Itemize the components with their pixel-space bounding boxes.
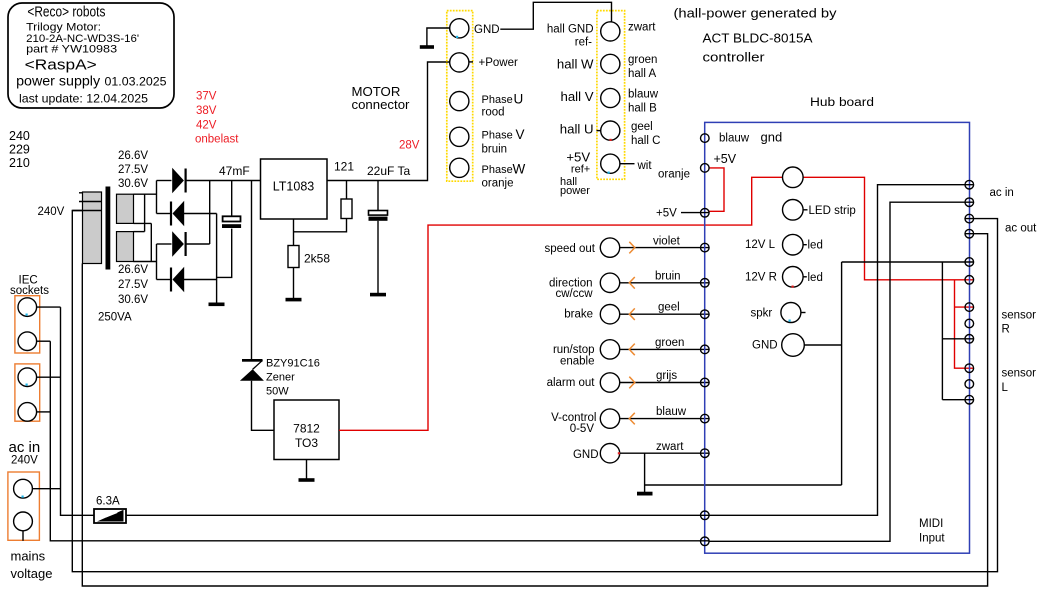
svg-text:42V: 42V (196, 120, 217, 132)
wire ac inlet live (32, 488, 60, 490)
svg-text:TO3: TO3 (295, 436, 318, 450)
svg-text:ref-: ref- (575, 36, 592, 48)
svg-text:7812: 7812 (293, 422, 320, 436)
svg-text:LT1083: LT1083 (273, 180, 315, 194)
svg-text:hall A: hall A (628, 68, 656, 80)
svg-text:cw/ccw: cw/ccw (555, 288, 593, 300)
rectifier diode D3 (157, 243, 172, 245)
hall connector pin4 (601, 121, 620, 140)
wire red +5V link (709, 168, 724, 211)
svg-text:gnd: gnd (761, 130, 783, 145)
wire ac in live riser (709, 185, 973, 516)
svg-text:28V: 28V (399, 140, 420, 152)
hall connector J2 housing (597, 11, 625, 180)
svg-text:hall W: hall W (557, 57, 594, 72)
svg-text:37V: 37V (196, 91, 217, 103)
svg-text:229: 229 (9, 143, 30, 157)
svg-text:sensor: sensor (1002, 368, 1037, 380)
svg-text:power supply: power supply (16, 73, 100, 88)
svg-text:geel: geel (658, 302, 680, 314)
wire GND zwart (620, 452, 710, 454)
stray red marks (610, 139, 794, 455)
svg-text:spkr: spkr (751, 308, 773, 320)
svg-text:30.6V: 30.6V (118, 178, 148, 190)
hub right edge pin sensor L 3 (965, 395, 974, 404)
svg-text:wit: wit (637, 160, 653, 172)
arrow in brake (629, 308, 635, 320)
hub right edge pin ac in 2 (965, 198, 974, 207)
IEC socket housing 1 (15, 296, 40, 353)
svg-text:Input: Input (919, 533, 945, 545)
stray cyan marks (22, 36, 791, 498)
svg-text:brake: brake (564, 309, 593, 321)
svg-text:50W: 50W (266, 386, 289, 398)
hub left edge pin direction (701, 279, 710, 288)
ac inlet pin neutral (14, 512, 33, 531)
hub right edge pin B2 (965, 276, 974, 285)
transformer T1 primary winding (83, 192, 102, 264)
svg-text:27.5V: 27.5V (118, 279, 148, 291)
svg-text:R: R (1002, 323, 1010, 335)
svg-text:26.6V: 26.6V (118, 150, 148, 162)
wire wit stub (620, 163, 635, 165)
svg-text:47mF: 47mF (219, 164, 250, 178)
wire ac inlet neutral (22, 531, 24, 541)
svg-text:GND: GND (752, 340, 778, 352)
svg-text:controller: controller (703, 51, 765, 65)
wire red 12V from 7812 to hub circle (339, 177, 783, 430)
ac inlet pin live (14, 479, 33, 498)
wire zener feed from +28V rail (251, 181, 253, 360)
svg-text:MIDI: MIDI (919, 518, 943, 530)
wire ADJ node (293, 219, 295, 246)
svg-text:hall V: hall V (561, 89, 594, 104)
hub left edge pin brake (701, 310, 710, 319)
svg-text:oranje: oranje (482, 178, 514, 190)
wire +28V output rail (327, 62, 450, 181)
hub right edge pin ac out 1 (965, 214, 974, 223)
svg-text:onbelast: onbelast (195, 134, 239, 146)
motor connector pin GND (450, 19, 469, 38)
arrow out speed (629, 242, 635, 254)
hub left edge pin +5V internal (701, 164, 710, 173)
hub right edge pin sensor L 2 (965, 380, 974, 389)
wire vertical tap link B (150, 223, 152, 261)
svg-text:Zener: Zener (266, 372, 295, 384)
control signal circle brake (600, 305, 619, 324)
control signal circle alarm out (600, 373, 619, 392)
capacitor C1 47mF top wire (231, 181, 233, 216)
svg-text:hall B: hall B (628, 103, 657, 115)
wire GND drop and bus to hub (645, 453, 842, 492)
svg-text:+5V: +5V (656, 208, 677, 220)
svg-text:+5V: +5V (566, 150, 590, 165)
wire IEC pin1 to live bus (37, 306, 61, 308)
svg-text:Phase: Phase (482, 164, 513, 176)
wire IEC pin4 to neutral bus (37, 411, 51, 413)
svg-text:240V: 240V (38, 206, 65, 218)
svg-text:hall GND: hall GND (547, 23, 594, 35)
svg-text:blauw: blauw (719, 133, 750, 145)
wire red 12V hub circle to sensor pins (803, 177, 973, 279)
svg-text:W: W (513, 162, 526, 177)
hub circle 12V L led (783, 234, 804, 255)
secondary tap wire upper-bottom (134, 222, 152, 224)
wire neutral bus (50, 341, 709, 541)
wire speed out violet (620, 247, 710, 249)
hub right edge pin sensor R 3 (965, 335, 974, 344)
svg-text:121: 121 (334, 160, 354, 174)
svg-text:bruin: bruin (655, 270, 681, 282)
hub circle spkr (781, 303, 801, 323)
hub left edge pin ac neutral (701, 537, 710, 546)
svg-text:speed out: speed out (544, 243, 595, 255)
svg-text:connector: connector (352, 97, 411, 112)
svg-text:L: L (1002, 382, 1009, 394)
svg-text:27.5V: 27.5V (118, 164, 148, 176)
hub left edge pin ac live (701, 511, 710, 520)
svg-text:12V R: 12V R (745, 272, 777, 284)
secondary tap wire lower-bottom (134, 261, 157, 263)
motor connector pin PhaseU (450, 92, 469, 111)
motor connector pin PhaseV (450, 127, 469, 146)
arrow in V-control (629, 413, 635, 425)
transformer secondary winding lower (117, 232, 134, 262)
hub right edge pin ac in 1 (965, 180, 974, 189)
svg-text:ac in: ac in (9, 439, 41, 456)
svg-text:zwart: zwart (656, 441, 684, 453)
IEC socket pin 1 (18, 298, 37, 317)
wire zener to 7812 (252, 381, 275, 431)
wire V-control blauw (620, 418, 710, 420)
wire hub GND to bus (804, 344, 841, 346)
hub circle GND (782, 334, 805, 357)
svg-text:26.6V: 26.6V (118, 264, 148, 276)
hub right edge pin B1 (965, 258, 974, 267)
svg-text:LED strip: LED strip (809, 205, 856, 217)
svg-text:hall C: hall C (631, 135, 660, 147)
arrow in run/stop (629, 344, 635, 356)
wire live bus (61, 307, 95, 515)
hub right edge pin sensor L 1 (965, 364, 974, 373)
IEC socket housing 2 (15, 364, 40, 421)
svg-text:BZY91C16: BZY91C16 (266, 358, 320, 370)
hub circle 12V R led (783, 267, 804, 288)
svg-text:240: 240 (9, 129, 30, 143)
hub left edge pin speed (701, 243, 710, 252)
ground motor connector (420, 45, 434, 49)
hall connector pin5 wit (601, 154, 620, 173)
wire IEC pin3 to live bus (37, 376, 61, 378)
svg-text:+Power: +Power (479, 57, 518, 69)
svg-text:6.3A: 6.3A (96, 496, 120, 508)
svg-text:Phase: Phase (482, 130, 513, 142)
svg-text:alarm out: alarm out (547, 377, 596, 389)
control signal circle V-control (600, 409, 619, 428)
control signal circle GND (600, 444, 619, 463)
wire ac in neutral riser (709, 202, 973, 541)
wire hub ground bus vertical (841, 262, 843, 485)
svg-text:blauw: blauw (628, 89, 659, 101)
svg-text:oranje: oranje (658, 169, 690, 181)
hub left edge pin blauw gnd (701, 134, 710, 143)
svg-text:2k58: 2k58 (304, 252, 330, 266)
wire fuse to hub (126, 514, 709, 516)
regulator U2 7812 TO3 box (274, 400, 339, 460)
transformer secondary winding upper (117, 194, 134, 223)
svg-text:run/stop: run/stop (553, 344, 595, 356)
transformer primary tap wire 210 (72, 210, 101, 212)
svg-text:geel: geel (631, 121, 653, 133)
wire diode D3 cathode to +rail (209, 181, 211, 245)
control signal circle speed out (600, 238, 619, 257)
resistor R1 121 (346, 181, 348, 200)
ground control GND (637, 492, 653, 496)
svg-text:V: V (516, 127, 525, 142)
rectifier diode D1 (157, 180, 172, 182)
svg-text:0-5V: 0-5V (570, 423, 595, 435)
transformer primary tap stub 240 (79, 192, 83, 194)
motor connector J1 housing (447, 11, 473, 182)
wire IEC pin2 to neutral bus (37, 340, 51, 342)
svg-text:12V L: 12V L (745, 239, 776, 251)
ground negative rail (209, 302, 225, 306)
IEC socket pin 4 (18, 403, 37, 422)
rectifier diode D4 (157, 279, 171, 281)
red unloaded voltage notes (195, 91, 239, 146)
svg-text:zwart: zwart (628, 22, 656, 34)
wire brake geel (620, 313, 710, 315)
wire alarm out grijs (620, 382, 710, 384)
ac inlet housing (8, 472, 40, 540)
svg-text:+5V: +5V (714, 152, 737, 166)
svg-text:<Reco> robots: <Reco> robots (27, 4, 105, 21)
hall connector pin1 zwart (601, 22, 620, 41)
svg-text:U: U (514, 92, 524, 107)
svg-text:ref+: ref+ (571, 164, 590, 176)
transformer primary tap stub 229 (79, 201, 101, 203)
wire ac out bottom loop (82, 234, 987, 586)
svg-text:groen: groen (655, 337, 684, 349)
svg-text:groen: groen (628, 54, 657, 66)
hall connector pin3 (601, 88, 620, 107)
svg-text:last update: 12.04.2025: last update: 12.04.2025 (19, 92, 148, 106)
svg-text:mains: mains (11, 549, 46, 564)
svg-text:250VA: 250VA (98, 312, 132, 324)
hub left edge pin GND (701, 449, 710, 458)
title block frame (8, 3, 174, 108)
secondary tap wire lower-top (134, 231, 145, 233)
hub left edge pin +5V external (701, 209, 710, 218)
svg-text:power: power (560, 185, 590, 197)
svg-text:enable: enable (560, 355, 595, 367)
wire node vertical diode feed upper (156, 181, 158, 214)
svg-text:240V: 240V (11, 455, 38, 467)
svg-text:ac in: ac in (990, 187, 1014, 199)
wire run/stop groen (620, 348, 710, 350)
svg-text:voltage: voltage (11, 566, 53, 581)
IEC socket pin 3 (18, 368, 37, 387)
svg-text:sensor: sensor (1002, 310, 1037, 322)
transformer core bar (106, 187, 111, 270)
svg-text:<RaspA>: <RaspA> (25, 57, 97, 74)
svg-text:blauw: blauw (656, 406, 687, 418)
svg-text:hall U: hall U (560, 122, 594, 137)
svg-text:rood: rood (482, 107, 505, 119)
svg-text:ACT BLDC-8015A: ACT BLDC-8015A (703, 32, 814, 46)
wire negative rail vertical (216, 214, 218, 304)
wire motor GND to ground (427, 28, 450, 46)
motor connector pin PhaseW (450, 158, 469, 177)
wire hall GND link (500, 2, 611, 29)
hub left edge pin run/stop (701, 345, 710, 354)
wire +28V input rail (185, 180, 261, 182)
hub circle 12V top (783, 167, 804, 188)
svg-text:Hub board: Hub board (810, 97, 874, 109)
zener diode Z1 (242, 359, 263, 362)
svg-text:bruin: bruin (482, 144, 508, 156)
motor connector pin +Power (450, 53, 469, 72)
hub right edge pin sensor R 1 (965, 303, 974, 312)
svg-text:violet: violet (653, 236, 681, 248)
svg-text:ac out: ac out (1005, 223, 1037, 235)
hub right edge pin ac out 2 (965, 229, 974, 238)
resistor R2 2k58 (288, 246, 299, 268)
svg-text:01.03.2025: 01.03.2025 (105, 74, 167, 88)
svg-text:led: led (808, 240, 823, 252)
control signal circle direction (600, 273, 619, 292)
hub board outline (705, 122, 970, 553)
svg-text:38V: 38V (196, 105, 217, 117)
regulator U1 LT1083 box (261, 159, 328, 219)
capacitor C2 22uF Ta (377, 181, 379, 211)
IEC socket pin 2 (18, 332, 37, 351)
wire sensor signal net (942, 262, 973, 400)
svg-text:210: 210 (9, 156, 30, 170)
capacitor C1 bottom wire (217, 229, 232, 278)
arrow out alarm (629, 377, 635, 389)
svg-text:(hall-power generated by: (hall-power generated by (674, 7, 838, 21)
svg-text:grijs: grijs (656, 370, 677, 382)
hub circle LED strip (783, 200, 804, 221)
hub left edge pin alarm (701, 378, 710, 387)
ground C2 (370, 293, 386, 297)
svg-text:part # YW10983: part # YW10983 (26, 44, 117, 56)
hall connector pin2 (601, 54, 620, 73)
control signal circle run/stop (600, 340, 619, 359)
rectifier diode D2 (157, 213, 171, 215)
ground 7812 (306, 460, 308, 479)
svg-text:Phase: Phase (482, 94, 513, 106)
wire direction bruin (620, 282, 710, 284)
svg-text:22uF Ta: 22uF Ta (367, 164, 410, 178)
wire pin B1 row (842, 261, 974, 263)
wire vertical tap link A (144, 194, 146, 231)
svg-text:GND: GND (573, 449, 599, 461)
svg-text:30.6V: 30.6V (118, 294, 148, 306)
svg-text:Trilogy Motor:: Trilogy Motor: (26, 22, 101, 34)
secondary tap wire top (134, 193, 157, 195)
hub left edge pin V-control (701, 414, 710, 423)
svg-text:led: led (808, 272, 823, 284)
ground R2 (286, 298, 302, 302)
svg-text:GND: GND (474, 24, 500, 36)
wire node vertical diode feed lower (156, 244, 158, 280)
arrow in direction (629, 277, 635, 289)
wire red sensor branch (955, 280, 974, 368)
wire ac out top loop (72, 211, 997, 572)
hub right edge pin sensor R 2 (965, 319, 974, 328)
capacitor C1 47mF plates (223, 216, 241, 221)
